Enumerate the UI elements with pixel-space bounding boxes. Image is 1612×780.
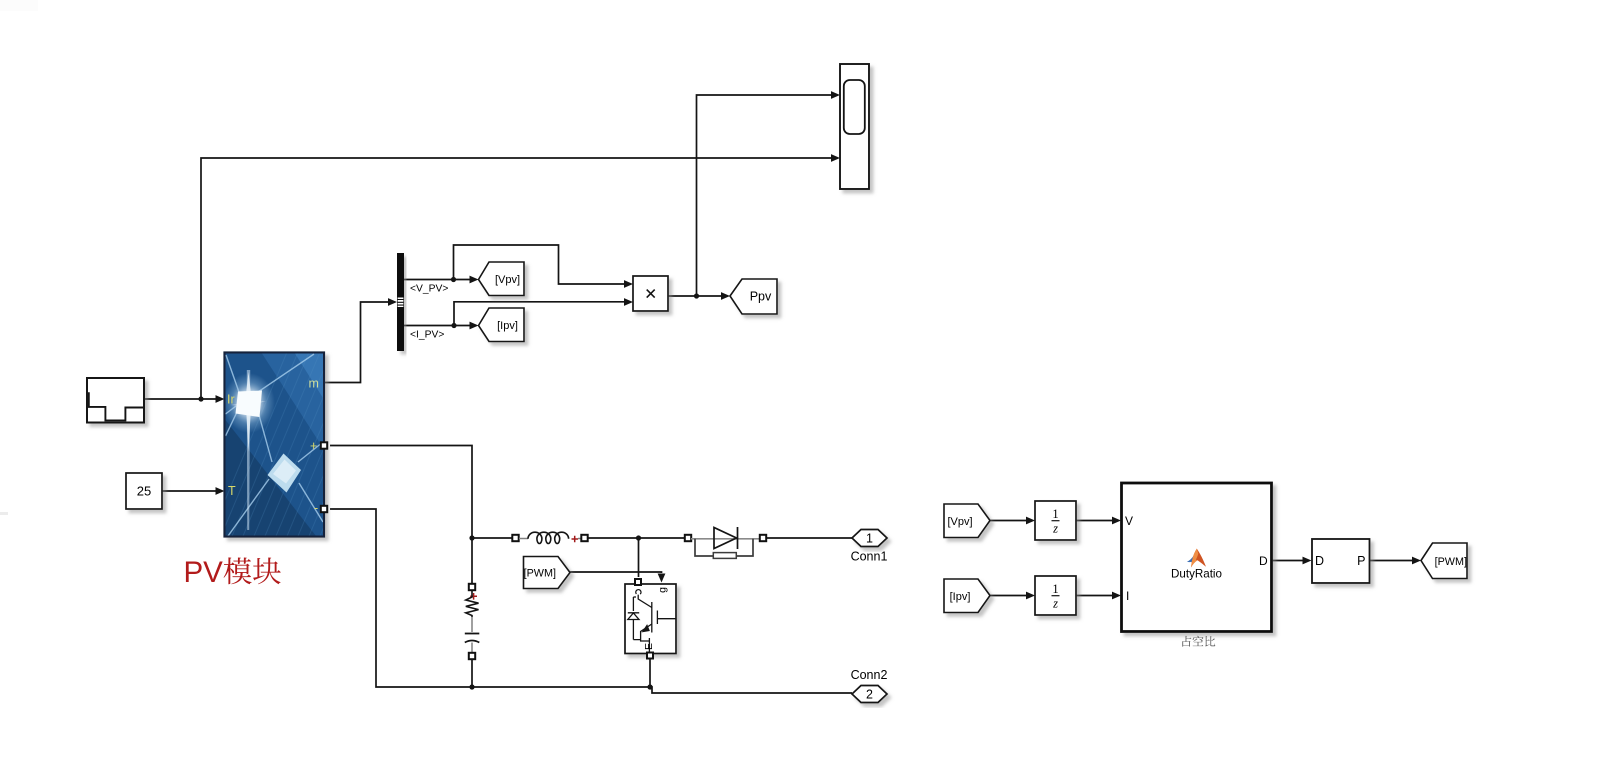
pulse signal source block [87,378,144,423]
svg-text:-: - [314,501,318,515]
svg-text:1: 1 [866,532,873,546]
wire: inductor to node B [588,535,685,540]
svg-text:T: T [228,484,236,498]
scope block [840,64,869,189]
wire: node A to inductor [472,537,512,539]
Conn2 port [852,686,887,703]
wire: PV m output to bus selector [324,298,397,382]
wire: Ir node up to scope input 2 [201,154,840,399]
wire: node B down to IGBT collector [638,538,640,577]
wire: diode to Conn1 [766,537,852,539]
svg-text:<I_PV>: <I_PV> [410,330,444,341]
Goto tag Ppv [730,279,777,314]
inductor + polarity mark [572,536,579,543]
svg-text:D: D [1315,554,1324,568]
wire: pulse source to PV Ir input with junction [144,395,225,403]
wire: PV + terminal to node A [330,446,475,541]
Goto tag PWM (right) [1421,543,1467,579]
IGBT block [625,579,676,659]
unit delay 2 (1/z) [1035,576,1076,615]
wire: IGBT emitter to rail [649,658,651,687]
diode symbol [714,528,737,549]
svg-text:V: V [1125,514,1133,528]
svg-text:I: I [1126,589,1129,603]
PV - port [321,506,327,512]
svg-text:1: 1 [1052,507,1058,521]
wire: From Ipv to unit delay 2 [990,592,1035,600]
series RC branch [465,584,480,659]
svg-text:D: D [1259,554,1268,568]
From tag Ipv [944,579,990,613]
Goto tag Ipv [479,308,525,342]
wire: constant 25 to PV T input [162,487,225,495]
constant block 25 [126,473,162,509]
wire: product output to Goto Ppv with junction [668,292,730,300]
matlab logo [1187,549,1206,568]
svg-text:P: P [1357,554,1365,568]
svg-text:Conn1: Conn1 [851,550,888,564]
product block [633,276,668,311]
diode D with snubber [685,527,766,558]
svg-text:[PWM]: [PWM] [524,568,556,580]
wire: Ppv branch up to scope input 1 [697,91,841,296]
wire: DutyRatio D to subsystem D [1272,557,1312,565]
Goto tag Vpv [479,262,525,296]
svg-text:Ppv: Ppv [750,290,772,304]
svg-text:Conn2: Conn2 [851,668,888,682]
faint toolbar remnant top-left [0,0,38,11]
IGBT internal symbol [628,590,676,652]
RC + polarity mark [470,593,477,600]
From tag PWM (left) [524,557,571,589]
svg-text:2: 2 [866,688,873,702]
svg-text:[Vpv]: [Vpv] [947,516,972,528]
svg-text:1: 1 [1052,582,1058,596]
MATLAB function block DutyRatio [1122,483,1272,632]
capacitor C [465,633,480,635]
wire: unit delay 1 to DutyRatio V [1076,517,1121,525]
svg-text:[PWM]: [PWM] [1435,556,1467,568]
subsystem D/P [1312,539,1370,583]
svg-text:25: 25 [137,484,151,499]
resistor R [466,591,479,618]
svg-text:E: E [643,643,655,650]
svg-text:g: g [657,587,669,593]
svg-text:PV: PV [184,556,224,589]
svg-text:z: z [1052,522,1058,536]
PV + port [321,442,327,448]
svg-text:[Ipv]: [Ipv] [950,591,971,603]
inductor L [512,532,587,543]
svg-text:[Ipv]: [Ipv] [497,320,518,332]
svg-text:m: m [309,377,319,391]
svg-text:[Vpv]: [Vpv] [495,274,520,286]
wire: unit delay 2 to DutyRatio I [1076,592,1121,600]
wire: From Vpv to unit delay 1 [990,517,1035,525]
From tag Vpv [944,504,990,538]
wire: bus I_PV output to Goto Ipv with junction [404,322,479,330]
bus selector [397,253,404,351]
svg-text:<V_PV>: <V_PV> [410,284,448,295]
wire: subsystem P to Goto PWM [1370,557,1422,565]
wire: RC branch bottom to rail [471,659,473,687]
label DutyRatio (gray CJK) [1182,636,1191,647]
snubber resistor [713,553,736,559]
wire: bus V_PV output to Goto Vpv with junction [404,276,479,284]
wire: PV - terminal to bottom rail [330,509,852,693]
svg-text:+: + [310,439,317,453]
PV module block [200,345,433,560]
unit delay 1 (1/z) [1035,501,1076,540]
svg-text:Ir: Ir [227,393,235,407]
svg-text:DutyRatio: DutyRatio [1171,568,1222,581]
label PV module (red) [184,556,281,589]
svg-text:z: z [1052,597,1058,611]
wire: I_PV branch to product input 2 [454,298,633,325]
wire: node A down to RC branch [471,538,473,583]
wire: V_PV branch to product input 1 [454,245,634,288]
wire: From PWM to IGBT gate [570,572,665,583]
Conn1 port [852,530,887,547]
